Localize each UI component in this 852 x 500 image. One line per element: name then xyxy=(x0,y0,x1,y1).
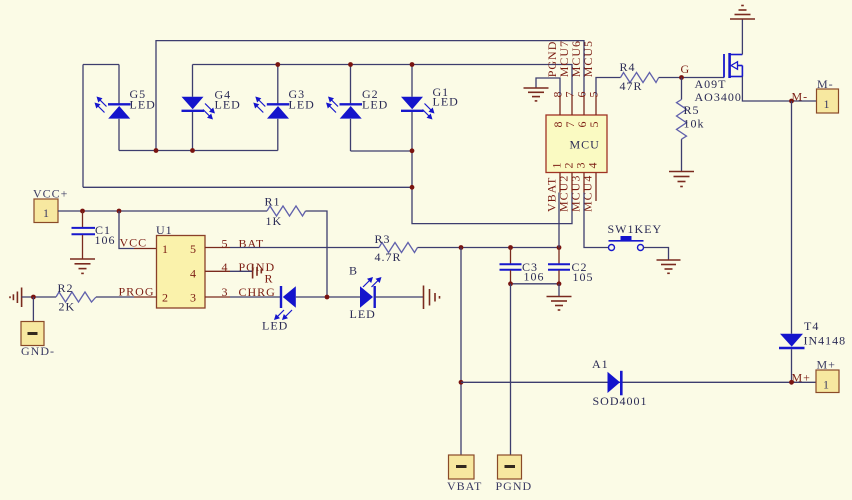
wire MCU pin8 to ground xyxy=(536,78,560,95)
ground (below R5) xyxy=(669,172,694,187)
junction C2/pin1 top xyxy=(557,245,562,250)
wire M- down to T4 xyxy=(791,101,793,334)
svg-text:M-: M- xyxy=(817,77,834,91)
svg-text:4: 4 xyxy=(586,162,600,169)
svg-text:VCC+: VCC+ xyxy=(33,187,68,201)
wire left-loop bottom rail to G1 column xyxy=(83,186,412,188)
resistor R2 xyxy=(56,292,96,302)
port VCC+ xyxy=(34,199,58,223)
svg-text:LED: LED xyxy=(130,98,156,112)
wire G1 column down to MCU2 net xyxy=(412,112,572,224)
ground (sideways, left of GND- junction) xyxy=(10,288,22,308)
resistor R3 xyxy=(379,243,418,253)
junction dots top rails xyxy=(275,62,280,67)
capacitor C2 xyxy=(548,248,570,284)
svg-text:R5: R5 xyxy=(684,103,700,117)
wire MCU pin3 to switch xyxy=(584,193,609,248)
svg-text:LED: LED xyxy=(215,98,241,112)
wire C3 bottom to C2 bottom xyxy=(511,283,560,285)
ground (MCU pin8) xyxy=(524,88,549,101)
svg-text:R4: R4 xyxy=(620,60,636,74)
svg-text:4.7R: 4.7R xyxy=(375,250,402,264)
wire LED B to sideways ground xyxy=(375,296,424,298)
wire R4 to gate node G xyxy=(659,77,724,79)
junction GND- xyxy=(31,295,36,300)
MCU pin 4 stub xyxy=(595,173,597,202)
wire M+ rail xyxy=(461,381,816,383)
svg-text:PROG: PROG xyxy=(119,285,155,299)
U1 pin4 stub (PGND) xyxy=(205,270,230,272)
junction M+ rail left xyxy=(459,380,464,385)
MCU pin stubs top xyxy=(559,95,561,115)
wire rail T2 (LED tops to MCU7) xyxy=(193,65,573,96)
svg-text:2: 2 xyxy=(162,291,169,305)
svg-text:VCC: VCC xyxy=(120,236,148,250)
wire G5 anode/cathode column xyxy=(118,65,120,105)
wire LED R to junction and LED B xyxy=(296,296,360,298)
U1 pin5 stub (BAT) xyxy=(205,247,230,249)
junction M- xyxy=(789,99,794,104)
wire left-loop top segment xyxy=(83,64,119,66)
svg-text:10k: 10k xyxy=(684,116,705,130)
wire pin4 to sideways ground xyxy=(230,270,253,272)
svg-text:106: 106 xyxy=(524,269,545,283)
wire R1 to CHRG node xyxy=(306,211,328,297)
svg-text:2K: 2K xyxy=(59,300,76,314)
wire junction down to GND- port xyxy=(32,297,34,322)
LED G5 xyxy=(95,97,131,119)
svg-text:5: 5 xyxy=(587,91,601,98)
svg-text:M+: M+ xyxy=(817,358,836,372)
svg-text:R3: R3 xyxy=(375,232,391,246)
svg-text:LED: LED xyxy=(350,307,376,321)
ground (below C2) xyxy=(547,297,572,311)
svg-text:LED: LED xyxy=(362,98,388,112)
svg-text:IN4148: IN4148 xyxy=(804,334,847,348)
diode A1 SOD4001 xyxy=(608,371,622,396)
svg-text:R: R xyxy=(265,272,274,286)
svg-text:5: 5 xyxy=(222,237,229,251)
diode T4 IN4148 xyxy=(779,334,805,348)
LED G2 xyxy=(326,97,362,119)
wire rail T1 (to MCU6) xyxy=(156,41,584,151)
svg-text:LED: LED xyxy=(433,95,459,109)
port VBAT xyxy=(449,455,475,479)
resistor R5 xyxy=(681,78,683,100)
wire pin3 to LED R xyxy=(230,296,280,298)
svg-text:R1: R1 xyxy=(265,194,281,208)
wire LED bottom rail right xyxy=(351,150,413,152)
ground (sideways, after LED B) xyxy=(424,286,440,310)
wire R2 to U1 pin2 xyxy=(96,296,134,298)
svg-text:G: G xyxy=(681,62,691,76)
ground (switch) xyxy=(657,260,681,273)
wire T4 to M+ rail xyxy=(791,349,793,382)
capacitor C3 xyxy=(500,248,522,284)
LED G1 xyxy=(401,97,435,120)
svg-text:T4: T4 xyxy=(804,319,819,333)
junction CHRG node xyxy=(325,295,330,300)
svg-text:1K: 1K xyxy=(266,214,283,228)
svg-text:B: B xyxy=(349,264,358,278)
wire LED bottom rail left xyxy=(119,150,278,152)
svg-text:SOD4001: SOD4001 xyxy=(593,394,648,408)
U1 pin1 stub xyxy=(134,248,157,250)
node G xyxy=(679,75,684,80)
svg-text:5: 5 xyxy=(587,121,601,128)
svg-text:105: 105 xyxy=(573,270,594,284)
svg-text:A1: A1 xyxy=(592,357,609,371)
resistor R1 xyxy=(267,206,306,216)
svg-text:GND-: GND- xyxy=(21,344,55,358)
svg-text:3: 3 xyxy=(190,291,197,305)
capacitor C1 xyxy=(72,211,96,259)
svg-text:5: 5 xyxy=(190,242,197,256)
wire ground to R2 xyxy=(22,296,56,298)
svg-text:M-: M- xyxy=(792,90,809,104)
wire R3 to VBAT junction xyxy=(418,247,560,249)
svg-text:MCU5: MCU5 xyxy=(581,40,595,77)
LED R (red charge led) xyxy=(274,286,296,320)
svg-text:SW1KEY: SW1KEY xyxy=(608,222,663,236)
svg-text:BAT: BAT xyxy=(239,237,265,251)
switch SW1 KEY xyxy=(609,236,644,251)
port GND- xyxy=(21,322,44,346)
junction C3 bottom xyxy=(508,281,513,286)
wire G4 column xyxy=(192,65,194,97)
chip U1 xyxy=(157,236,206,309)
U1 pin2 stub xyxy=(134,296,157,298)
wire BAT to R3 xyxy=(230,247,379,249)
MCU pin stubs bottom xyxy=(559,173,561,193)
port M- xyxy=(817,89,839,113)
svg-text:LED: LED xyxy=(289,98,315,112)
LED G3 xyxy=(253,97,289,119)
wire switch to ground xyxy=(644,248,669,260)
svg-text:1: 1 xyxy=(824,97,831,111)
svg-text:LED: LED xyxy=(262,318,288,332)
svg-text:PGND: PGND xyxy=(496,479,533,493)
transistor Q1 A09T AO3400 xyxy=(724,53,742,78)
svg-text:1: 1 xyxy=(43,206,50,220)
wire PGND column down to port xyxy=(510,284,512,455)
junction M+ right xyxy=(789,380,794,385)
svg-text:106: 106 xyxy=(95,233,116,247)
U1 pin3 stub (CHRG) xyxy=(205,296,230,298)
wire G3 column xyxy=(277,65,279,105)
port PGND xyxy=(498,455,522,479)
wire MCU pin5 up to R4 xyxy=(596,78,621,96)
LED B (blue led) xyxy=(360,277,382,308)
ground (sideways, U1 pin4) xyxy=(253,264,262,279)
svg-text:MCU4: MCU4 xyxy=(581,175,595,212)
svg-text:VBAT: VBAT xyxy=(447,479,482,493)
junction C3 top xyxy=(508,245,513,250)
svg-text:1: 1 xyxy=(823,378,830,392)
wire C2 bottom to ground xyxy=(558,284,560,296)
svg-text:47R: 47R xyxy=(620,79,643,93)
svg-text:4: 4 xyxy=(222,260,229,274)
svg-text:A09T: A09T xyxy=(695,77,727,91)
resistor R4 xyxy=(621,73,659,83)
ground (top, flipped, at FET drain) xyxy=(730,6,755,20)
svg-text:4: 4 xyxy=(190,267,197,281)
svg-text:M+: M+ xyxy=(792,371,811,385)
svg-text:MCU: MCU xyxy=(570,138,600,152)
svg-text:1: 1 xyxy=(162,242,169,256)
junction VCC column xyxy=(117,209,122,214)
wire FET source down to M- line xyxy=(742,77,816,102)
wire VBAT column down to port xyxy=(460,248,462,456)
wire VCC down to U1 pin1 xyxy=(119,211,134,249)
ground (below C1) xyxy=(70,259,95,273)
wire G1 column top xyxy=(411,65,413,97)
svg-text:3: 3 xyxy=(222,285,229,299)
svg-text:R2: R2 xyxy=(58,281,74,295)
junction VBAT column top xyxy=(459,245,464,250)
port M+ xyxy=(816,370,839,393)
svg-text:U1: U1 xyxy=(156,223,173,237)
LED G4 xyxy=(182,97,216,120)
wire MCU pin1 down to VBAT rail xyxy=(558,193,560,248)
MCU U? chip body xyxy=(546,115,607,173)
wire VCC rail xyxy=(58,210,267,212)
wire FET drain up xyxy=(741,20,743,55)
svg-text:AO3400: AO3400 xyxy=(695,90,742,104)
wire left-loop vertical xyxy=(82,65,84,188)
junction C2 bottom xyxy=(557,281,562,286)
wire G2 column xyxy=(350,65,352,105)
junction C1 xyxy=(80,209,85,214)
